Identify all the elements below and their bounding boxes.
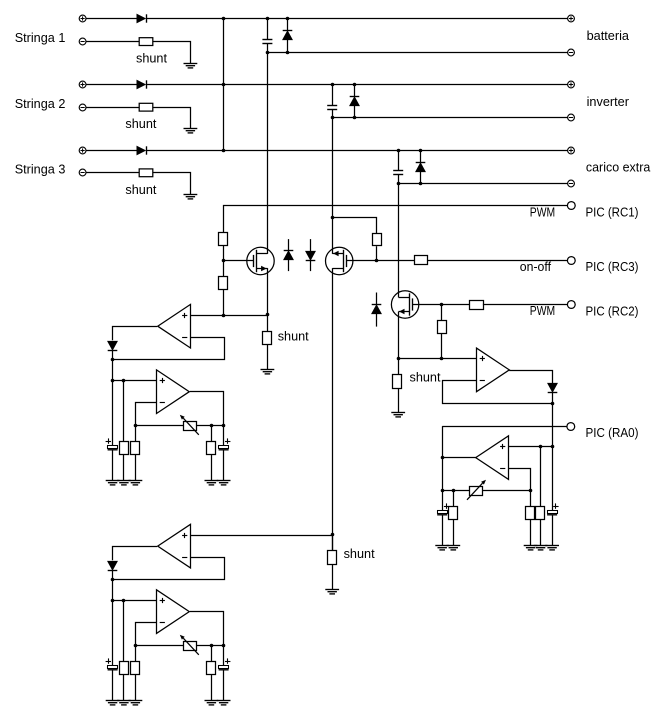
capacitor batteria C1 [262,40,272,44]
wire Stringa 3 plus rail [146,150,567,152]
junction rail left A [134,424,138,428]
diode D2 string blocking [137,80,147,88]
junction UC2 output node [441,456,445,460]
wire C plus input [398,358,476,360]
wire diode D8 bottom stem [310,260,312,271]
ground C x442.2 [435,546,449,550]
Q3 lower arrow [399,309,405,314]
diode DB output down [108,561,118,570]
resistor R5 PWM series [470,301,484,310]
resistor RB2 [131,662,140,675]
wire diode to feedback node [112,570,114,579]
svg-text:carico extra: carico extra [586,160,651,175]
ground B x223.6 [217,701,231,705]
terminal carico extra minus [568,180,575,187]
junction feedback node B [111,578,115,582]
shunt resistor string 2 [139,103,153,111]
junction rail left B [134,644,138,648]
wire Q2 gate [346,260,376,262]
junction Q3 gate node [440,303,444,307]
wire shunt C to ground [398,388,400,412]
pot rail wire A [135,425,223,427]
wire resC3 to ground [540,520,542,546]
wire cap1 to ground B [112,670,114,701]
junction Q2 gate node [375,259,379,263]
wire inverter cap upper stem [332,85,334,106]
wire Stringa 1 plus to diode [86,18,137,20]
wire res3 stem B [211,645,213,661]
svg-text:shunt: shunt [125,182,156,197]
transistor Q3 nmos [391,291,418,318]
capacitor carico C3 [393,171,403,175]
svg-text:PWM: PWM [530,303,555,318]
wire Stringa 2 plus to diode [86,84,137,86]
junction rail mid B [210,644,214,648]
transistor Q2 nmos [326,247,353,274]
wire cap2 stem B [223,645,225,665]
wire res3 stem A [211,425,213,441]
resistor R3 Q2 gate pullup [373,234,382,246]
op-amp UC1 [477,348,510,392]
resistor RA2 [131,442,140,455]
shunt resistor Q3 [393,375,402,389]
junction rail mid A [210,424,214,428]
junction inverter line gate branch [331,216,335,220]
terminal inverter plus [568,81,575,88]
diode batteria D4 [283,31,293,40]
wire PWM RC1 [224,206,568,233]
transistor Q1 nmos [247,247,274,274]
diode D3 string blocking [137,146,147,154]
capacitor CC1 electrolytic [437,503,449,514]
op-amp UA2 [157,370,190,414]
junction C plus at pulldown [440,357,444,361]
wire Stringa 1 minus to shunt [86,41,139,43]
terminal PIC RC1 [567,202,575,210]
junction plus rail left A [111,379,115,383]
junction inverter plus diode [353,83,357,87]
terminal Stringa 3 minus [79,169,86,176]
junction plus rail left B [111,599,115,603]
wire inverter minus rail [332,117,567,119]
wire carico cap upper stem [398,151,400,171]
ground B x123.9 [117,701,131,705]
wire UA1 plus input [190,315,267,317]
svg-text:shunt: shunt [125,116,156,131]
ground C x530.6 [524,546,538,550]
wire shunt B stem [332,535,334,550]
wire inverter cap lower stem [332,109,334,117]
Q1 source arrow [261,266,267,271]
wire capC2 stem [552,447,554,511]
Q2 upper arrow [333,251,339,256]
wire Q3 gate pulldown [441,304,443,321]
junction carico plus diode [419,149,423,153]
junction batteria plus diode [286,17,290,21]
junction plus rail R B [122,599,126,603]
wire gate node to R2 [223,260,225,276]
resistor R6 gate pulldown [438,321,447,334]
wire Stringa 2 minus to shunt [86,107,139,109]
wire Q1 drain to batteria minus [267,52,269,254]
op-amp UB2 [157,590,190,634]
wire down to plus rail A [112,359,114,381]
wire UA1 feedback [113,338,225,360]
junction carico minus cap [397,182,401,186]
svg-text:shunt: shunt [410,369,441,384]
terminal Stringa 3 plus [79,147,86,154]
wire bus joining string + rails [223,19,225,151]
wire plus rail B [113,600,157,602]
wire resC1 stem [453,491,455,507]
wire res2 to ground A [135,455,137,481]
wire UB2 minus input [136,623,158,646]
ground string 1 shunt [184,64,198,68]
junction C plus rail mid [539,445,543,449]
shunt resistor Q1 [263,332,272,345]
terminal PIC RC3 [567,257,575,265]
wire carico cap lower stem [398,174,400,184]
wire diode to node [552,393,554,404]
resistor RB3 [207,662,216,675]
ground Q3 shunt [391,413,405,417]
junction inverter minus cap [331,116,335,120]
svg-text:shunt: shunt [136,50,167,65]
ground A x211.4 [205,481,219,485]
wire Q2 drain to inverter minus [332,118,334,254]
wire UB1 output [113,547,158,561]
wire UA1 output [113,327,158,341]
terminal Stringa 2 minus [79,104,86,111]
wire RA0 corner down [442,426,444,511]
wire res1 stem B [123,601,125,662]
wire cap2 to ground A [223,450,225,481]
wire res2 stem A [135,425,137,441]
svg-text:PIC (RA0): PIC (RA0) [586,425,639,440]
junction C rail right [529,489,533,493]
ground B x211.4 [205,701,219,705]
wire batteria minus rail [267,52,567,54]
wire plus rail A [113,380,157,382]
terminal Stringa 2 plus [79,81,86,88]
resistor RB1 [120,662,129,675]
svg-text:batteria: batteria [587,28,630,43]
wire batteria cap lower stem [267,43,269,52]
ground Q1 shunt [261,370,275,374]
wire diode D7 bottom stem [288,260,290,272]
wire resC2 to ground [530,520,532,546]
wire shunt A to ground [267,344,269,370]
junction C feedback node [551,402,555,406]
diode carico D6 [416,163,426,172]
wire Q2 source down to shunt [332,268,334,550]
capacitor CC2 electrolytic [547,503,559,514]
wire resC3 stem [540,447,542,507]
wire CC1 to ground [442,515,444,546]
wire cap1 stem B [112,601,114,666]
svg-text:PWM: PWM [530,204,555,219]
junction rail right B [222,644,226,648]
wire res2 to ground B [135,674,137,700]
potentiometer PA [180,415,199,435]
wire carico minus rail [398,183,567,185]
wire capC2 to ground [552,515,554,546]
wire batteria cap upper stem [267,19,269,40]
wire batteria diode upper stem [287,19,289,31]
junction batteria minus diode [286,51,290,55]
junction B plus wire shunt node [331,533,335,537]
wire res2 stem B [135,645,137,661]
junction C rail left [441,489,445,493]
op-amp UC2 [476,436,509,480]
junction feedback node A [111,358,115,362]
wire cap1 stem A [112,381,114,446]
wire gate branch R3 [332,218,376,234]
wire gate node to on-off resistor [377,260,415,262]
wire R6 to sense node [441,334,443,359]
junction Q1 shunt node [266,313,270,317]
wire UC1 feedback [443,381,553,404]
junction Q1 gate node [222,259,226,263]
capacitor CA1 electrolytic [106,438,118,449]
capacitor CB2 electrolytic [219,658,231,669]
wire Q3 gate [412,304,442,306]
wire Stringa 3 minus to shunt [86,172,139,174]
capacitor inverter C2 [327,106,337,110]
wire UA2 output [190,392,224,426]
terminal carico extra plus [568,147,575,154]
ground string 2 shunt [184,129,198,133]
wire batteria diode lower stem [287,39,289,52]
junction inverter minus diode [353,116,357,120]
ground C x540.6 [534,546,548,550]
diode DA output down [108,341,118,350]
wire diode D8 top stem [310,239,312,251]
wire inverter diode lower stem [354,106,356,118]
wire Q1 gate [223,260,253,262]
svg-text:PIC (RC1): PIC (RC1) [586,205,639,220]
junction inverter plus cap [331,83,335,87]
wire R2 to opamp node [223,289,225,315]
ground A x123.9 [117,481,131,485]
junction UA1 plus divider [222,314,226,318]
svg-text:PIC (RC3): PIC (RC3) [586,259,639,274]
wire shunt A stem [267,315,269,332]
terminal PIC RC2 [567,301,575,309]
terminal PIC RA0 [567,423,575,431]
svg-text:shunt: shunt [278,329,309,344]
ground A x223.6 [217,481,231,485]
diode D1 string blocking [137,14,147,22]
wire res1 stem A [123,381,125,442]
shunt resistor string 1 [139,38,153,46]
wire resC1 to ground [453,520,455,546]
wire UC1 output [509,371,552,384]
wire cap2 stem A [223,425,225,445]
junction C plus rail right [551,445,555,449]
junction C plus at shunt [397,357,401,361]
junction plus rail R A [122,379,126,383]
ground A x135.4 [129,481,143,485]
wire Q1 source down [267,268,269,315]
ground C x453.3 [446,546,460,550]
wire inverter diode upper stem [354,85,356,97]
junction rail right A [222,424,226,428]
resistor RC1b [449,507,458,520]
potentiometer PC [467,480,486,500]
wire shunt C stem [398,359,400,375]
junction bus row2 [222,83,226,87]
wire res3 to ground B [211,674,213,700]
shunt resistor Q2 [328,551,337,565]
resistor RA1 [120,442,129,455]
wire UC2 minus input [509,469,531,491]
svg-text:Stringa 1: Stringa 1 [15,30,66,45]
junction batteria plus cap [266,17,270,21]
capacitor CA2 electrolytic [219,438,231,449]
resistor R2 gate bottom [219,277,228,290]
svg-text:Stringa 2: Stringa 2 [15,96,66,111]
resistor RA3 [207,442,216,455]
wire UB1 plus input [190,535,332,537]
op-amp UA1 [158,304,191,348]
wire UA2 minus input [136,403,158,426]
ground string 3 shunt [184,195,198,199]
diode D7 up [284,251,294,260]
junction carico plus cap [397,149,401,153]
pot rail wire C [442,490,530,492]
wire cap1 to ground A [112,450,114,481]
junction batteria minus cap [266,51,270,55]
wire res3 to ground A [211,455,213,481]
wire UB2 output [190,612,224,646]
wire R3 to Q2 gate node [376,246,378,260]
wire shunt B to ground [332,564,334,590]
wire R4 to PIC RC3 [427,260,567,262]
wire UC2 plus input [509,446,552,448]
svg-text:PIC (RC2): PIC (RC2) [586,303,639,318]
wire UB1 feedback [113,558,225,580]
ground B x135.4 [129,701,143,705]
wire R5 to PIC RC2 [483,304,567,306]
resistor R1 gate top [219,233,228,246]
wire UC2 output [442,457,476,459]
diode DC output down [548,383,558,392]
wire res1 to ground B [123,674,125,700]
wire C node down to plus rail [552,403,554,446]
op-amp UB1 [158,524,191,568]
wire shunt 3 to ground [153,173,191,195]
diode inverter D5 [350,97,360,106]
wire Stringa 1 plus rail [146,18,567,20]
terminal batteria plus [568,15,575,22]
wire res1 to ground A [123,455,125,481]
wire diode D7 top stem [288,239,290,250]
wire diode to feedback node [112,350,114,359]
ground Q2 shunt [325,590,339,594]
wire Stringa 2 plus rail [146,84,567,86]
ground A x112.6 [106,481,120,485]
wire Q3 drain to carico minus [398,184,400,298]
svg-text:shunt: shunt [344,546,375,561]
terminal Stringa 1 minus [79,38,86,45]
wire cap2 to ground B [223,670,225,701]
junction bus row3 [222,149,226,153]
diode D8 down [306,251,316,260]
potentiometer PB [180,635,199,655]
shunt resistor string 3 [139,169,153,177]
capacitor CB1 electrolytic [106,658,118,669]
terminal batteria minus [568,49,575,56]
ground C x552.1 [545,546,559,550]
terminal Stringa 1 plus [79,15,86,22]
resistor R4 on-off series [415,256,428,265]
resistor RC3b [536,507,545,520]
wire resC2 stem [530,491,532,507]
wire diode D9 bottom stem [376,313,378,326]
resistor RC2b [526,507,535,520]
wire down to plus rail B [112,579,114,601]
wire R1 to gate node [223,245,225,260]
ground B x112.6 [106,701,120,705]
pot rail wire B [135,645,223,647]
wire shunt 2 to ground [153,108,191,129]
wire Stringa 3 plus to diode [86,150,137,152]
svg-text:inverter: inverter [587,94,630,109]
wire Q3 source down [398,312,400,359]
junction bus row1 [222,17,226,21]
wire shunt 1 to ground [153,42,191,64]
junction carico minus diode [419,182,423,186]
diode D9 up [372,305,382,314]
wire gate node to R5 [442,304,469,306]
svg-text:Stringa 3: Stringa 3 [15,162,66,177]
wire diode D9 top stem [376,293,378,305]
wire carico diode lower stem [420,171,422,183]
wire carico diode upper stem [420,151,422,163]
wire PIC RA0 [442,426,567,428]
terminal inverter minus [568,114,575,121]
junction C rail mid [452,489,456,493]
